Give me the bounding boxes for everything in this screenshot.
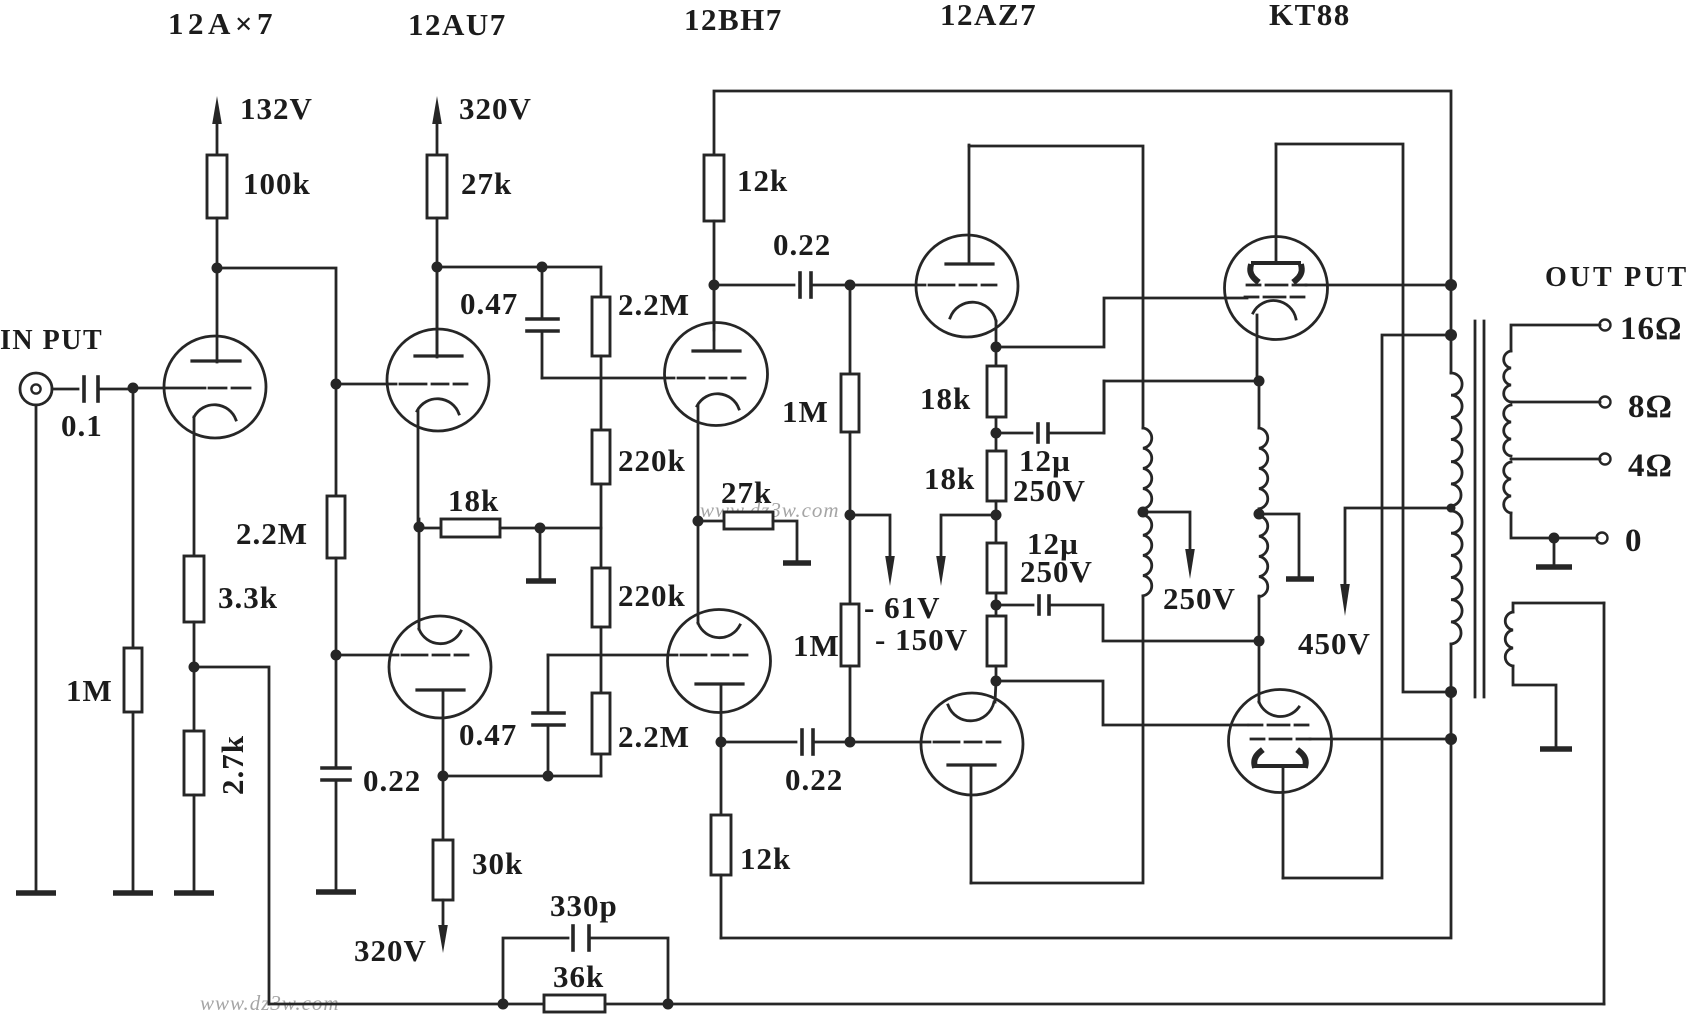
wire W2 to V9 cathode [1258, 596, 1261, 702]
svg-text:2.2M: 2.2M [618, 287, 690, 322]
node feedback cathode [189, 662, 200, 673]
tube V4 12BH7 upper [665, 285, 768, 521]
resistor 2.2M (grid leak V2) [327, 496, 345, 558]
svg-text:250V: 250V [1013, 473, 1086, 508]
wire V5 plate node to 0.22 lower [721, 741, 796, 744]
svg-text:1M: 1M [66, 673, 113, 708]
resistor 2.7k [184, 731, 204, 795]
winding W2 upper half (KT88 cathodes) [1259, 428, 1268, 509]
wire 2.2M to grid node of V3 [335, 558, 338, 768]
resistor 2.2M lower [592, 693, 610, 754]
node V7 cathode [991, 676, 1002, 687]
svg-text:1M: 1M [793, 628, 840, 663]
feedback winding [1505, 603, 1604, 749]
svg-text:0.22: 0.22 [773, 227, 831, 262]
resistor 3.3k [184, 556, 204, 622]
resistor 12k (plate load V5) [711, 742, 731, 938]
node input grid [128, 383, 139, 394]
wire 0.22 lower to V7 grid [813, 741, 930, 744]
resistor 1M [124, 648, 142, 712]
wire V3 plate node [443, 775, 601, 778]
wire cathode junction down to V3 [418, 519, 421, 629]
tube V5 12BH7 lower (inverted) [668, 521, 771, 742]
capacitor 0.47 (upper coupling) [527, 267, 558, 378]
wire grid V5 [548, 654, 677, 657]
svg-text:12k: 12k [740, 841, 791, 876]
resistor 1M (upper grid return) [841, 285, 859, 604]
capacitor 12µ upper [996, 381, 1104, 442]
wire jack to cap 0.1 [52, 388, 78, 391]
ground [1286, 576, 1314, 582]
node V3 grid [331, 650, 342, 661]
ground [174, 890, 214, 896]
node 1M midpoint [845, 510, 856, 521]
svg-text:- 150V: - 150V [875, 622, 968, 657]
svg-text:12BH7: 12BH7 [684, 2, 783, 37]
resistor 18k no4 [987, 616, 1006, 681]
wire grid V3 [336, 654, 398, 657]
terminal 4 ohm [1600, 454, 1611, 465]
node V6 cathode [991, 342, 1002, 353]
ground tap of W2 [1259, 514, 1299, 578]
svg-text:132V: 132V [240, 91, 313, 126]
node 0 tap ground [1549, 533, 1560, 544]
svg-text:12AU7: 12AU7 [408, 7, 507, 42]
terminal 0 [1597, 533, 1608, 544]
svg-text:0.22: 0.22 [785, 762, 843, 797]
ground [16, 890, 56, 896]
resistor 18k no3 [987, 543, 1006, 616]
node W2 ground tap [1254, 509, 1265, 520]
wire cathode node to winding [1258, 381, 1261, 428]
svg-text:30k: 30k [472, 846, 523, 881]
resistor 1M (lower grid return) [841, 604, 859, 742]
svg-text:12A×7: 12A×7 [168, 6, 277, 41]
svg-text:27k: 27k [461, 166, 512, 201]
wire feedback node to bottom rail [194, 667, 269, 1004]
resistor 36k [544, 995, 605, 1012]
wire chain 2.2M to 220k [600, 356, 603, 430]
node V6 grid [845, 280, 856, 291]
arrow 320V [432, 96, 442, 155]
wire V9 screen to transformer node [1310, 738, 1451, 741]
resistor 27k (plate load V2) [427, 155, 447, 218]
svg-text:250V: 250V [1163, 581, 1236, 616]
wire 3.3k to cathode node [193, 622, 196, 731]
ground [316, 889, 356, 895]
node V2 plate [432, 262, 443, 273]
wire 0.22 to V6 grid [811, 284, 925, 287]
resistor 18k no2 [987, 451, 1006, 543]
transformer core [1475, 321, 1484, 697]
wire 2.2M lower to plate node [600, 754, 603, 776]
tube V6 12AZ7 upper [916, 145, 1018, 347]
resistor 12k (plate load V4) [704, 155, 724, 221]
node V7 grid [845, 737, 856, 748]
ground [526, 578, 556, 584]
capacitor 0.1 [84, 377, 98, 401]
node V2 grid [331, 379, 342, 390]
resistor 30k [433, 776, 453, 900]
resistor 220k lower [592, 568, 610, 627]
bottom rail continues [605, 1003, 1604, 1006]
wire 100k to plate of V1 [216, 218, 219, 362]
wire V4 plate node to 0.22 [714, 284, 794, 287]
node 12BH7 cathodes [693, 516, 704, 527]
resistor 220k [592, 430, 610, 484]
node 330p left [498, 999, 509, 1010]
resistor 18k (horizontal) [418, 519, 601, 537]
wire 0.22 to ground [335, 780, 338, 891]
node screen upper [1445, 279, 1457, 291]
node W1 tap [1138, 507, 1149, 518]
svg-text:4Ω: 4Ω [1628, 448, 1673, 484]
wire plate node to 2.2M branch [217, 268, 336, 496]
arrow 250V tap [1143, 512, 1195, 579]
capacitor 330p branch [503, 926, 668, 1004]
ground [783, 560, 811, 566]
winding W1 lower half [1143, 515, 1152, 596]
winding W2 lower half [1259, 516, 1268, 597]
node 0.47 upper [537, 262, 548, 273]
svg-text:8Ω: 8Ω [1628, 389, 1673, 425]
node cathodes V2 V3 [414, 522, 425, 533]
wire node G1 to tube grid [133, 387, 205, 390]
node plate lower [1445, 329, 1457, 341]
tube V7 12AZ7 lower (inverted) [921, 681, 1023, 883]
primary winding lower half [1451, 511, 1462, 644]
wire V8 plate up over and down [1276, 144, 1451, 692]
svg-text:18k: 18k [924, 461, 975, 496]
svg-text:330p: 330p [550, 888, 618, 923]
node V1 plate [212, 263, 223, 274]
svg-text:0.47: 0.47 [459, 717, 517, 752]
wire V8 screen to transformer node [1306, 284, 1451, 287]
secondary winding with taps [1504, 325, 1600, 538]
node 18k 12µ upper [991, 428, 1002, 439]
wire 12k to plate of V4 [713, 221, 716, 330]
svg-text:3.3k: 3.3k [218, 580, 278, 615]
resistor 18k no1 [987, 347, 1006, 451]
node 450V tap [1447, 504, 1456, 513]
arrow -61V [850, 515, 895, 586]
svg-text:1M: 1M [782, 394, 829, 429]
node 0.47 lower [543, 771, 554, 782]
arrow 320V down [438, 900, 448, 953]
bottom feedback rail [269, 1003, 544, 1006]
svg-text:450V: 450V [1298, 626, 1371, 661]
wire V6 cathode to KT88 grid [996, 298, 1247, 347]
svg-text:2.2M: 2.2M [236, 516, 308, 551]
capacitor 0.22 (cathode bypass) [322, 768, 350, 780]
wire V7 plate loop to winding bottom [971, 596, 1143, 883]
wire cap to node G1 [98, 388, 133, 391]
node primary bottom [1445, 686, 1457, 698]
arrow 132V [212, 96, 222, 155]
node 330p right [663, 999, 674, 1010]
node screen lower [1445, 733, 1457, 745]
svg-text:220k: 220k [618, 578, 686, 613]
resistor 27k (cathode, horizontal) [698, 512, 797, 562]
resistor 2.2M (grid leak V4) [592, 297, 610, 356]
node V5 plate [716, 737, 727, 748]
svg-text:320V: 320V [354, 933, 427, 968]
capacitor 0.22 lower (to V7 grid) [802, 730, 813, 754]
svg-text:0.1: 0.1 [61, 408, 103, 443]
ground at 0 tap [1536, 538, 1572, 567]
wire chain to 2.2M lower [600, 627, 603, 693]
ground stem under 18k [539, 528, 542, 580]
wire 27k to plate of V2 [436, 218, 439, 357]
tube V2 12AU7 upper [387, 267, 489, 521]
svg-text:18k: 18k [920, 381, 971, 416]
tube V3 12AU7 lower (inverted) [389, 616, 491, 776]
node 18k 12µ lower [991, 600, 1002, 611]
svg-text:36k: 36k [553, 959, 604, 994]
wire feedback winding to bottom rail [1603, 603, 1606, 1004]
svg-text:220k: 220k [618, 443, 686, 478]
svg-text:0.47: 0.47 [460, 286, 518, 321]
svg-text:18k: 18k [448, 483, 499, 518]
svg-text:OUT PUT: OUT PUT [1545, 262, 1689, 293]
capacitor 0.22 (to V6 grid) [800, 273, 811, 297]
wire jack ground drop [35, 405, 38, 892]
wire node G1 down to 1M [132, 389, 135, 892]
wire grid V4 [542, 377, 674, 380]
ground [113, 890, 153, 896]
tap 450V [1340, 508, 1451, 616]
svg-text:12k: 12k [737, 163, 788, 198]
svg-text:0: 0 [1625, 523, 1643, 559]
terminal 8 ohm [1600, 397, 1611, 408]
wire V8 cathode to winding W2 [1104, 381, 1257, 433]
terminal 16 ohm [1600, 320, 1611, 331]
wire top rail from 12k to transformer top [714, 91, 1451, 373]
input jack J1 [20, 373, 52, 405]
node V9 cathode [1254, 636, 1265, 647]
svg-text:12AZ7: 12AZ7 [940, 0, 1037, 32]
arrow -150V [936, 515, 996, 586]
winding W1 upper half (12AZ7 plates) [1143, 428, 1152, 509]
wire V6 plate up and over to winding [969, 146, 1143, 428]
tube V9 KT88 lower (inverted) [1229, 690, 1332, 879]
svg-text:0.22: 0.22 [363, 763, 421, 798]
node 18k -150V [991, 510, 1002, 521]
node V3 plate [438, 771, 449, 782]
resistor 100k [207, 155, 227, 218]
wire chain 220k to 220k [600, 484, 603, 568]
node 18k ground [535, 523, 546, 534]
tube V8 KT88 upper [1225, 144, 1328, 381]
svg-text:2.2M: 2.2M [618, 719, 690, 754]
wire V9 grid return rail [721, 739, 1451, 938]
primary winding upper half [1451, 373, 1462, 506]
wire V9 plate loop up to node [1283, 335, 1451, 878]
svg-text:- 61V: - 61V [864, 590, 940, 625]
svg-text:320V: 320V [459, 91, 532, 126]
svg-text:100k: 100k [243, 166, 311, 201]
node V4 plate [709, 280, 720, 291]
svg-text:KT88: KT88 [1269, 0, 1351, 32]
svg-text:2.7k: 2.7k [215, 735, 250, 795]
wire primary bottom to node [1450, 644, 1453, 739]
svg-text:250V: 250V [1020, 554, 1093, 589]
tube V1 12A×7 [164, 336, 266, 556]
svg-text:IN PUT: IN PUT [0, 325, 103, 356]
capacitor 0.47 (lower coupling) [533, 655, 564, 776]
wire V2 plate node to 0.47 and 220k chain [437, 267, 601, 297]
svg-text:16Ω: 16Ω [1620, 311, 1682, 347]
capacitor 12µ lower [996, 596, 1259, 641]
node V8 cathode [1254, 376, 1265, 387]
wire V7 cathode to KT88 lower grid [996, 681, 1247, 725]
wire grid V2 [336, 383, 396, 386]
wire 2.7k to ground [193, 795, 196, 892]
